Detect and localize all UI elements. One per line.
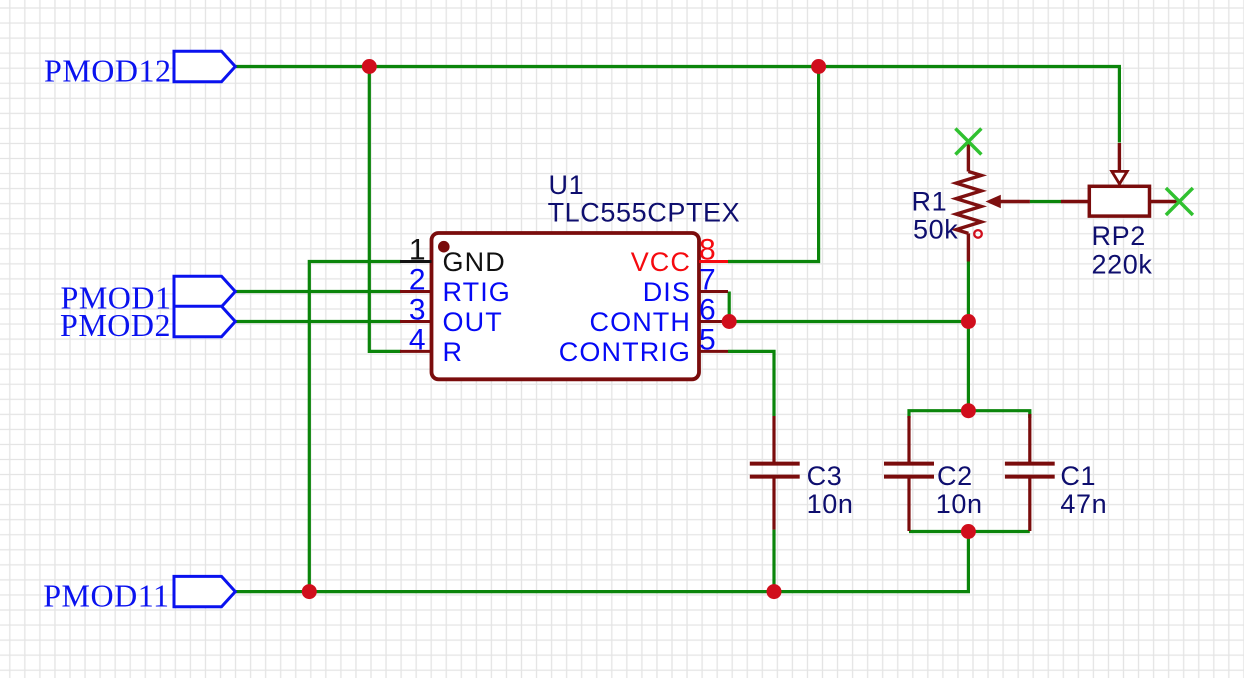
svg-text:R: R — [443, 337, 464, 367]
svg-text:C3: C3 — [807, 461, 843, 491]
svg-text:GND: GND — [443, 247, 506, 277]
svg-text:7: 7 — [699, 264, 716, 297]
svg-text:PMOD12: PMOD12 — [44, 53, 171, 89]
svg-text:CONTH: CONTH — [590, 307, 692, 337]
svg-text:RP2: RP2 — [1092, 221, 1146, 251]
svg-text:C2: C2 — [937, 461, 973, 491]
svg-text:3: 3 — [409, 294, 426, 327]
svg-text:OUT: OUT — [443, 307, 503, 337]
svg-text:TLC555CPTEX: TLC555CPTEX — [548, 197, 741, 227]
svg-text:10n: 10n — [936, 489, 983, 519]
svg-text:DIS: DIS — [643, 277, 691, 307]
svg-text:U1: U1 — [549, 170, 585, 200]
svg-text:1: 1 — [409, 234, 426, 267]
svg-text:5: 5 — [699, 323, 716, 356]
svg-text:4: 4 — [409, 323, 426, 356]
svg-text:6: 6 — [699, 294, 716, 327]
svg-text:CONTRIG: CONTRIG — [559, 337, 691, 367]
svg-text:RTIG: RTIG — [443, 277, 511, 307]
svg-text:8: 8 — [699, 234, 716, 267]
svg-text:PMOD2: PMOD2 — [60, 307, 171, 343]
svg-text:VCC: VCC — [631, 247, 691, 277]
svg-text:10n: 10n — [807, 489, 854, 519]
svg-text:PMOD11: PMOD11 — [43, 577, 169, 613]
svg-text:50k: 50k — [913, 214, 958, 244]
svg-text:R1: R1 — [912, 187, 948, 217]
svg-text:C1: C1 — [1060, 461, 1096, 491]
svg-text:220k: 220k — [1092, 249, 1153, 279]
svg-text:2: 2 — [409, 264, 426, 297]
svg-text:47n: 47n — [1060, 489, 1107, 519]
